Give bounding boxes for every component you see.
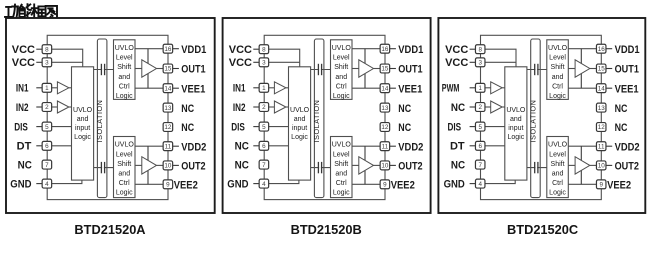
svg-text:GND: GND xyxy=(10,179,31,191)
pin 4 (left row 8) xyxy=(36,183,42,185)
capacitor C2 plates xyxy=(102,162,104,173)
svg-text:Ctrl: Ctrl xyxy=(336,180,347,187)
svg-text:13: 13 xyxy=(164,105,172,112)
wire driver2 output to OUT2 pin xyxy=(157,164,164,166)
svg-text:14: 14 xyxy=(381,85,389,92)
wire VEE2 rail to pin xyxy=(135,183,163,185)
isolation capacitor C2 (lower) lead xyxy=(311,167,331,169)
svg-text:ISOLATION: ISOLATION xyxy=(312,100,321,143)
wire DIS pin5 to input logic block xyxy=(52,126,72,128)
pin 14 (right row 3) xyxy=(173,87,179,89)
pin 7 (left row 7) xyxy=(475,160,485,169)
svg-text:8: 8 xyxy=(45,46,49,53)
UVLO Level Shift and Ctrl Logic block 1 xyxy=(547,40,569,100)
svg-text:OUT1: OUT1 xyxy=(181,64,205,76)
svg-text:VDD2: VDD2 xyxy=(398,141,423,153)
wire VDD1 rail to pin xyxy=(135,48,163,50)
svg-text:VDD2: VDD2 xyxy=(181,141,206,153)
capacitor C2 plates xyxy=(319,162,321,173)
pin 7 (left row 7) xyxy=(259,160,269,169)
svg-text:and: and xyxy=(552,171,564,178)
wire driver2 supply vertical xyxy=(364,146,366,184)
wire IN1 pin1 to buffer xyxy=(52,87,58,89)
UVLO Level Shift and Ctrl Logic block 1 xyxy=(331,40,353,100)
wire driver1 output to OUT1 pin xyxy=(157,68,164,70)
isolation barrier xyxy=(314,39,324,198)
svg-text:VDD1: VDD1 xyxy=(181,44,206,56)
wire GND pin4 to input logic block bottom xyxy=(485,180,515,184)
svg-text:UVLO: UVLO xyxy=(115,45,135,52)
svg-text:and: and xyxy=(118,74,130,81)
wire VDD2 rail to pin xyxy=(352,145,380,147)
pin 9 (right row 8) xyxy=(380,180,390,189)
wire DT pin6 to input logic block xyxy=(485,145,505,147)
svg-text:4: 4 xyxy=(262,181,266,188)
capacitor C1 plates xyxy=(102,64,104,75)
pin 2 (left row 4) xyxy=(253,106,259,108)
svg-text:16: 16 xyxy=(381,46,389,53)
pin 13 (right row 4) xyxy=(380,103,390,112)
wire DT pin6 to input logic block xyxy=(269,145,289,147)
svg-text:GND: GND xyxy=(227,179,248,191)
svg-text:and: and xyxy=(335,171,347,178)
svg-text:VCC: VCC xyxy=(12,44,35,56)
svg-text:10: 10 xyxy=(164,163,172,170)
buffer A2 (IN2) xyxy=(57,101,69,113)
svg-text:input: input xyxy=(292,125,307,132)
svg-text:Level: Level xyxy=(549,55,566,62)
UVLO and input Logic block xyxy=(505,67,527,180)
svg-text:15: 15 xyxy=(381,66,389,73)
svg-text:VCC: VCC xyxy=(229,57,252,69)
svg-text:ISOLATION: ISOLATION xyxy=(528,100,537,143)
wire driver1 supply vertical xyxy=(147,49,149,88)
pin 6 (left row 6) xyxy=(470,145,476,147)
svg-text:VDD1: VDD1 xyxy=(615,44,640,56)
wire VDD2 rail to pin xyxy=(568,145,596,147)
svg-text:Level: Level xyxy=(549,151,566,158)
svg-text:4: 4 xyxy=(45,181,49,188)
svg-text:Shift: Shift xyxy=(551,64,565,71)
svg-text:11: 11 xyxy=(382,143,389,150)
pin 13 (right row 4) xyxy=(163,103,173,112)
wire driver1 output to OUT1 pin xyxy=(590,68,597,70)
figure frame diagram A xyxy=(6,18,215,213)
svg-text:OUT2: OUT2 xyxy=(398,161,422,173)
svg-text:ISOLATION: ISOLATION xyxy=(95,100,104,143)
svg-text:8: 8 xyxy=(262,46,266,53)
pin 2 (left row 4) xyxy=(36,106,42,108)
pin 10 (right row 7) xyxy=(390,164,396,166)
svg-text:VCC: VCC xyxy=(229,44,252,56)
svg-text:2: 2 xyxy=(478,104,482,111)
svg-text:IN1: IN1 xyxy=(233,83,246,95)
pin 13 (right row 4) xyxy=(596,103,606,112)
svg-text:Level: Level xyxy=(333,151,350,158)
svg-text:and: and xyxy=(77,116,89,123)
svg-text:DIS: DIS xyxy=(448,122,462,134)
svg-text:Shift: Shift xyxy=(334,64,348,71)
pin 15 (right row 2) xyxy=(173,68,179,70)
pin 3 (left row 2) xyxy=(253,61,259,63)
wire driver1 output to OUT1 pin xyxy=(374,68,381,70)
svg-text:VEE2: VEE2 xyxy=(174,180,198,192)
wire VCC pin3 junction xyxy=(269,61,300,63)
svg-text:3: 3 xyxy=(45,60,49,67)
svg-text:9: 9 xyxy=(599,182,603,189)
wire VEE1 rail to pin xyxy=(135,87,163,89)
svg-text:Level: Level xyxy=(116,151,133,158)
svg-text:16: 16 xyxy=(164,46,172,53)
svg-text:Level: Level xyxy=(333,55,350,62)
pin 12 (right row 5) xyxy=(380,123,390,132)
svg-text:Logic: Logic xyxy=(333,190,350,197)
svg-text:13: 13 xyxy=(381,105,389,112)
svg-text:UVLO: UVLO xyxy=(548,45,568,52)
svg-text:VCC: VCC xyxy=(445,57,468,69)
figure frame diagram C xyxy=(438,18,645,213)
wire buffer A1 to input logic block xyxy=(286,87,289,89)
capacitor C2 plates xyxy=(535,162,537,173)
svg-text:Ctrl: Ctrl xyxy=(336,83,347,90)
wire GND pin4 to input logic block bottom xyxy=(269,180,299,184)
svg-text:and: and xyxy=(335,74,347,81)
svg-text:input: input xyxy=(75,125,90,132)
svg-text:OUT1: OUT1 xyxy=(615,64,639,76)
svg-text:8: 8 xyxy=(478,46,482,53)
driver stage buffer B1 xyxy=(575,60,590,77)
pin 5 (left row 5) xyxy=(253,126,259,128)
wire IN2 pin2 to buffer xyxy=(269,106,275,108)
svg-text:12: 12 xyxy=(381,124,389,131)
svg-text:VDD2: VDD2 xyxy=(615,141,640,153)
svg-text:Ctrl: Ctrl xyxy=(119,83,130,90)
svg-text:NC: NC xyxy=(235,141,249,153)
svg-text:Shift: Shift xyxy=(334,161,348,168)
driver stage buffer B2 xyxy=(142,157,157,174)
pin 16 (right row 1) xyxy=(390,48,396,50)
isolation capacitor C1 (upper) lead xyxy=(311,69,331,71)
svg-text:NC: NC xyxy=(615,122,628,134)
svg-text:7: 7 xyxy=(478,162,482,169)
pin 6 (left row 6) xyxy=(253,145,259,147)
wire VCC pin8 to input logic block top xyxy=(269,49,300,67)
svg-text:15: 15 xyxy=(164,66,172,73)
svg-text:OUT2: OUT2 xyxy=(615,161,639,173)
svg-text:IN1: IN1 xyxy=(16,83,29,95)
IC package outline UA xyxy=(47,35,168,199)
capacitor C1 plates xyxy=(535,64,537,75)
wire buffer A2 to input logic block xyxy=(286,106,289,108)
svg-text:5: 5 xyxy=(45,124,49,131)
driver stage buffer B1 xyxy=(359,60,374,77)
pin 7 (left row 7) xyxy=(42,160,52,169)
wire DIS pin5 to input logic block xyxy=(485,126,505,128)
UVLO and input Logic block xyxy=(72,67,94,180)
svg-text:OUT1: OUT1 xyxy=(398,64,422,76)
svg-text:7: 7 xyxy=(45,162,49,169)
buffer A1 (IN1) xyxy=(57,82,69,94)
wire buffer A2 to input logic block xyxy=(502,106,505,108)
svg-text:NC: NC xyxy=(18,160,32,172)
wire buffer A1 to input logic block xyxy=(69,87,72,89)
wire logic to driver1 xyxy=(568,68,575,70)
svg-text:Ctrl: Ctrl xyxy=(552,180,563,187)
svg-text:Logic: Logic xyxy=(333,93,350,100)
wire driver2 supply vertical xyxy=(580,146,582,184)
svg-text:Shift: Shift xyxy=(551,161,565,168)
wire logic to driver1 xyxy=(352,68,359,70)
svg-text:UVLO: UVLO xyxy=(332,45,352,52)
svg-text:NC: NC xyxy=(398,103,411,115)
pin 14 (right row 3) xyxy=(606,87,612,89)
svg-text:7: 7 xyxy=(262,162,266,169)
wire buffer A2 to input logic block xyxy=(69,106,72,108)
svg-text:6: 6 xyxy=(478,143,482,150)
svg-text:VEE2: VEE2 xyxy=(607,180,631,192)
wire driver1 supply vertical xyxy=(580,49,582,88)
IC package outline UB xyxy=(264,35,385,199)
svg-text:UVLO: UVLO xyxy=(73,107,93,114)
svg-text:NC: NC xyxy=(451,160,465,172)
svg-text:DT: DT xyxy=(17,141,32,153)
driver stage buffer B2 xyxy=(359,157,374,174)
wire buffer A1 to input logic block xyxy=(502,87,505,89)
svg-text:1: 1 xyxy=(45,85,49,92)
buffer A1 (IN1) xyxy=(274,82,286,94)
svg-text:9: 9 xyxy=(383,182,387,189)
UVLO Level Shift and Ctrl Logic block 2 xyxy=(547,137,569,198)
section title 功能框图 (drawn strokes) xyxy=(5,4,57,20)
pin 9 (right row 8) xyxy=(163,180,173,189)
pin 1 (left row 3) xyxy=(253,87,259,89)
pin 5 (left row 5) xyxy=(36,126,42,128)
pin 11 (right row 6) xyxy=(390,145,396,147)
svg-text:2: 2 xyxy=(45,104,49,111)
isolation barrier xyxy=(97,39,107,198)
pin 6 (left row 6) xyxy=(36,145,42,147)
wire driver1 supply vertical xyxy=(364,49,366,88)
pin 8 (left row 1) xyxy=(36,48,42,50)
svg-text:NC: NC xyxy=(398,122,411,134)
wire IN2 pin2 to buffer xyxy=(485,106,491,108)
svg-text:DT: DT xyxy=(450,141,465,153)
svg-text:BTD21520B: BTD21520B xyxy=(291,222,362,237)
svg-text:2: 2 xyxy=(262,104,266,111)
svg-text:UVLO: UVLO xyxy=(290,107,310,114)
svg-text:12: 12 xyxy=(598,124,606,131)
svg-text:BTD21520A: BTD21520A xyxy=(74,222,145,237)
svg-text:5: 5 xyxy=(262,124,266,131)
wire logic to driver2 xyxy=(352,164,359,166)
svg-text:Logic: Logic xyxy=(507,134,524,141)
svg-text:14: 14 xyxy=(164,85,172,92)
wire driver2 output to OUT2 pin xyxy=(590,164,597,166)
svg-text:VEE1: VEE1 xyxy=(181,83,205,95)
pin 4 (left row 8) xyxy=(470,183,476,185)
svg-text:Shift: Shift xyxy=(117,64,131,71)
svg-text:Logic: Logic xyxy=(291,134,308,141)
pin 9 (right row 8) xyxy=(596,180,606,189)
svg-text:9: 9 xyxy=(166,182,170,189)
svg-text:6: 6 xyxy=(45,143,49,150)
driver stage buffer B1 xyxy=(142,60,157,77)
svg-text:11: 11 xyxy=(165,143,172,150)
isolation capacitor C1 (upper) lead xyxy=(527,69,547,71)
capacitor C1 plates xyxy=(319,64,321,75)
svg-text:14: 14 xyxy=(598,85,606,92)
svg-text:DIS: DIS xyxy=(14,122,28,134)
pin 16 (right row 1) xyxy=(173,48,179,50)
wire VCC pin8 to input logic block top xyxy=(52,49,83,67)
driver stage buffer B2 xyxy=(575,157,590,174)
svg-text:1: 1 xyxy=(478,85,482,92)
svg-text:Shift: Shift xyxy=(117,161,131,168)
pin 4 (left row 8) xyxy=(253,183,259,185)
svg-text:Ctrl: Ctrl xyxy=(552,83,563,90)
svg-text:NC: NC xyxy=(181,103,194,115)
svg-text:input: input xyxy=(508,125,523,132)
pin 10 (right row 7) xyxy=(173,164,179,166)
wire DIS pin5 to input logic block xyxy=(269,126,289,128)
svg-text:UVLO: UVLO xyxy=(506,107,526,114)
svg-text:11: 11 xyxy=(598,143,605,150)
wire VEE1 rail to pin xyxy=(352,87,380,89)
svg-text:Logic: Logic xyxy=(74,134,91,141)
wire VEE2 rail to pin xyxy=(568,183,596,185)
svg-text:Ctrl: Ctrl xyxy=(119,180,130,187)
svg-text:PWM: PWM xyxy=(442,83,460,95)
svg-text:IN2: IN2 xyxy=(233,102,246,114)
svg-text:12: 12 xyxy=(164,124,172,131)
pin 14 (right row 3) xyxy=(390,87,396,89)
svg-text:IN2: IN2 xyxy=(16,102,29,114)
wire DT pin6 to input logic block xyxy=(52,145,72,147)
pin 1 (left row 3) xyxy=(36,87,42,89)
svg-text:6: 6 xyxy=(262,143,266,150)
svg-text:GND: GND xyxy=(444,179,465,191)
wire driver2 supply vertical xyxy=(147,146,149,184)
svg-text:BTD21520C: BTD21520C xyxy=(507,222,578,237)
pin 12 (right row 5) xyxy=(163,123,173,132)
buffer A1 (IN1) xyxy=(491,82,503,94)
wire GND pin4 to input logic block bottom xyxy=(52,180,82,184)
wire VEE2 rail to pin xyxy=(352,183,380,185)
wire logic to driver2 xyxy=(568,164,575,166)
svg-text:NC: NC xyxy=(615,103,628,115)
svg-text:UVLO: UVLO xyxy=(115,142,135,149)
wire VDD1 rail to pin xyxy=(568,48,596,50)
isolation capacitor C2 (lower) lead xyxy=(94,167,114,169)
wire VCC pin3 junction xyxy=(52,61,83,63)
pin 10 (right row 7) xyxy=(606,164,612,166)
svg-text:5: 5 xyxy=(478,124,482,131)
svg-text:Logic: Logic xyxy=(116,190,133,197)
svg-text:VCC: VCC xyxy=(445,44,468,56)
UVLO Level Shift and Ctrl Logic block 1 xyxy=(114,40,136,100)
pin 8 (left row 1) xyxy=(253,48,259,50)
wire VCC pin8 to input logic block top xyxy=(485,49,516,67)
pin 15 (right row 2) xyxy=(606,68,612,70)
buffer A2 (IN2) xyxy=(491,101,503,113)
svg-text:NC: NC xyxy=(235,160,249,172)
isolation capacitor C1 (upper) lead xyxy=(94,69,114,71)
svg-text:VEE1: VEE1 xyxy=(398,83,422,95)
pin 1 (left row 3) xyxy=(470,87,476,89)
svg-text:10: 10 xyxy=(598,163,606,170)
pin 11 (right row 6) xyxy=(606,145,612,147)
pin 2 (left row 4) xyxy=(470,106,476,108)
pin 12 (right row 5) xyxy=(596,123,606,132)
buffer A2 (IN2) xyxy=(274,101,286,113)
svg-text:13: 13 xyxy=(598,105,606,112)
UVLO Level Shift and Ctrl Logic block 2 xyxy=(331,137,353,198)
svg-text:and: and xyxy=(552,74,564,81)
svg-text:VCC: VCC xyxy=(12,57,35,69)
svg-text:VDD1: VDD1 xyxy=(398,44,423,56)
pin 3 (left row 2) xyxy=(36,61,42,63)
UVLO and input Logic block xyxy=(289,67,311,180)
wire IN2 pin2 to buffer xyxy=(52,106,58,108)
svg-text:UVLO: UVLO xyxy=(332,142,352,149)
svg-text:VEE2: VEE2 xyxy=(391,180,415,192)
svg-text:UVLO: UVLO xyxy=(548,142,568,149)
wire VEE1 rail to pin xyxy=(568,87,596,89)
pin 15 (right row 2) xyxy=(390,68,396,70)
svg-text:and: and xyxy=(510,116,522,123)
svg-text:NC: NC xyxy=(451,102,465,114)
svg-text:1: 1 xyxy=(262,85,266,92)
svg-text:3: 3 xyxy=(478,60,482,67)
wire VCC pin3 junction xyxy=(485,61,516,63)
svg-text:Logic: Logic xyxy=(549,93,566,100)
svg-text:OUT2: OUT2 xyxy=(181,161,205,173)
svg-text:VEE1: VEE1 xyxy=(615,83,639,95)
wire VDD1 rail to pin xyxy=(352,48,380,50)
isolation barrier xyxy=(531,39,541,198)
svg-text:and: and xyxy=(118,171,130,178)
svg-text:Logic: Logic xyxy=(549,190,566,197)
wire logic to driver2 xyxy=(135,164,142,166)
svg-text:10: 10 xyxy=(381,163,389,170)
svg-text:DIS: DIS xyxy=(231,122,245,134)
svg-text:Logic: Logic xyxy=(116,93,133,100)
IC package outline UC xyxy=(481,35,602,199)
isolation capacitor C2 (lower) lead xyxy=(527,167,547,169)
wire IN1 pin1 to buffer xyxy=(269,87,275,89)
UVLO Level Shift and Ctrl Logic block 2 xyxy=(114,137,136,198)
pin 11 (right row 6) xyxy=(173,145,179,147)
svg-text:3: 3 xyxy=(262,60,266,67)
figure frame diagram B xyxy=(223,18,431,213)
wire logic to driver1 xyxy=(135,68,142,70)
wire VDD2 rail to pin xyxy=(135,145,163,147)
svg-text:Level: Level xyxy=(116,55,133,62)
wire driver2 output to OUT2 pin xyxy=(374,164,381,166)
wire IN1 pin1 to buffer xyxy=(485,87,491,89)
svg-text:4: 4 xyxy=(478,181,482,188)
pin 5 (left row 5) xyxy=(470,126,476,128)
pin 3 (left row 2) xyxy=(470,61,476,63)
svg-text:15: 15 xyxy=(598,66,606,73)
svg-text:16: 16 xyxy=(598,46,606,53)
pin 8 (left row 1) xyxy=(470,48,476,50)
svg-text:NC: NC xyxy=(181,122,194,134)
pin 16 (right row 1) xyxy=(606,48,612,50)
svg-text:and: and xyxy=(294,116,306,123)
